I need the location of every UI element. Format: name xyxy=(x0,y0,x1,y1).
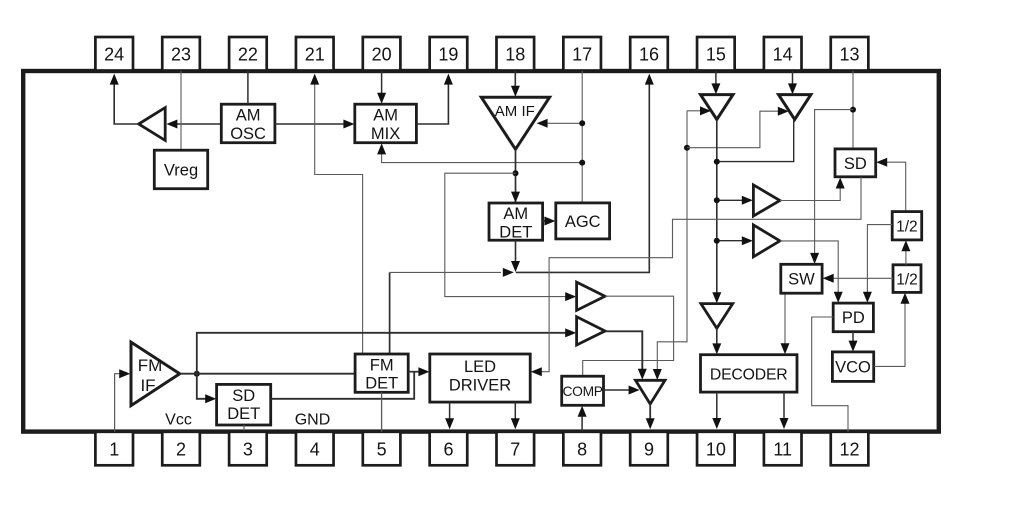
svg-text:7: 7 xyxy=(510,439,520,459)
svg-text:GND: GND xyxy=(295,411,331,428)
node SD mute bus branch junction xyxy=(684,145,690,151)
svg-text:16: 16 xyxy=(639,45,659,65)
wire amp A output to COMP top xyxy=(583,296,674,376)
svg-text:1/2: 1/2 xyxy=(896,219,918,236)
svg-text:14: 14 xyxy=(773,45,793,65)
pin 4 (bottom) xyxy=(296,432,334,466)
wire FM DET output horizontal into pin 16 node xyxy=(390,268,514,277)
pin 15 (top) xyxy=(697,37,735,71)
DECODER block xyxy=(701,355,798,392)
node AM IF output junction xyxy=(513,170,519,176)
wire SD DET to pin 3 xyxy=(243,425,245,431)
svg-text:21: 21 xyxy=(305,45,325,65)
svg-text:FM: FM xyxy=(138,356,163,375)
svg-text:AM: AM xyxy=(236,107,261,125)
wire pin 18 to AM IF top xyxy=(511,71,520,97)
svg-text:AM: AM xyxy=(503,205,528,223)
svg-text:22: 22 xyxy=(238,45,258,65)
wire AGC net to AM IF right input xyxy=(537,119,583,128)
wire SD mute bus to meter amp 15 input xyxy=(687,106,711,115)
wire pin 13 down to SD top xyxy=(852,71,854,149)
wire AM DET output down to pin 16 node xyxy=(511,240,520,272)
pin 16 (top) xyxy=(630,37,668,71)
wire FM DET output up to pin 16 node xyxy=(389,272,391,353)
pin 5 (bottom) xyxy=(363,432,401,466)
GND label (pin 4) xyxy=(295,411,331,428)
node AGC net / AM IF feed junction xyxy=(579,120,585,126)
svg-text:20: 20 xyxy=(372,45,392,65)
svg-text:19: 19 xyxy=(438,45,458,65)
pin 22 (top) xyxy=(229,37,267,71)
wire divider 1/2b output to SW right input xyxy=(823,274,893,283)
wire LED DRIVER output to pin 6 xyxy=(445,402,454,429)
SD DET block xyxy=(217,384,271,425)
IC body outline xyxy=(23,71,939,432)
pin 8 (bottom) xyxy=(563,432,601,466)
FM DET block xyxy=(355,354,408,393)
pin 1 (bottom) xyxy=(95,432,133,466)
svg-text:12: 12 xyxy=(840,439,860,459)
svg-text:SD: SD xyxy=(232,387,255,405)
pin 21 (top) xyxy=(296,37,334,71)
wire SD mute bus (vertical) with branches xyxy=(653,111,687,380)
wire DECODER output to pin 11 xyxy=(780,392,789,429)
pin 2 (bottom) xyxy=(162,432,200,466)
svg-text:13: 13 xyxy=(840,45,860,65)
svg-text:LED: LED xyxy=(464,358,496,376)
svg-text:4: 4 xyxy=(310,439,320,459)
pin 18 (top) xyxy=(497,37,535,71)
node meter bus junction xyxy=(714,159,720,165)
svg-text:MIX: MIX xyxy=(371,125,400,143)
node AGC net / AM MIX feed junction xyxy=(579,160,585,166)
pin 20 (top) xyxy=(363,37,401,71)
svg-text:6: 6 xyxy=(443,439,453,459)
svg-text:8: 8 xyxy=(577,439,587,459)
wire divider 1/2b up to divider 1/2a xyxy=(901,240,910,264)
wire divider 1/2a left to PD top xyxy=(863,225,892,303)
svg-text:5: 5 xyxy=(377,439,387,459)
wire pin 8 to COMP bottom xyxy=(578,406,587,432)
svg-text:11: 11 xyxy=(773,439,792,459)
pin 17 (top) xyxy=(563,37,601,71)
buffer amp (AM OSC output buffer) xyxy=(139,108,166,141)
wire AM OSC to buffer input xyxy=(166,120,221,129)
wire PD output to VCO xyxy=(849,332,858,352)
wire meter amp 14 output joining meter bus xyxy=(717,120,794,162)
pin 13 (top) xyxy=(831,37,869,71)
svg-text:PD: PD xyxy=(842,309,865,327)
wire DECODER output to pin 10 xyxy=(712,392,721,429)
wire buffer output to pin 24 xyxy=(110,74,139,124)
window comparator triangle (to pin 9) xyxy=(636,380,666,404)
svg-text:DET: DET xyxy=(499,224,532,242)
svg-text:3: 3 xyxy=(243,439,253,459)
LED DRIVER block xyxy=(430,354,530,402)
svg-text:FM: FM xyxy=(370,356,394,374)
AM IF amp triangle xyxy=(481,97,549,149)
svg-text:9: 9 xyxy=(644,439,654,459)
svg-text:VCO: VCO xyxy=(835,359,871,377)
wire pin 20 to AM MIX top xyxy=(377,71,386,104)
svg-text:AGC: AGC xyxy=(565,213,601,231)
meter amp triangle at pin 15 xyxy=(701,95,734,120)
stop detector triangle (decoder input) xyxy=(701,304,733,329)
svg-text:DET: DET xyxy=(227,405,260,423)
wire SW output to DECODER top xyxy=(781,293,790,354)
wire SD output down to mute bus xyxy=(531,177,861,376)
FM IF amp triangle xyxy=(131,342,180,406)
pin 10 (bottom) xyxy=(697,432,735,466)
pin 23 (top) xyxy=(162,37,200,71)
wire AM OSC output to AM MIX input xyxy=(275,120,355,129)
pin 11 (bottom) xyxy=(764,432,802,466)
divider 1/2 block a xyxy=(892,212,922,240)
wire buffer amp C output to SD bottom xyxy=(780,178,845,201)
svg-text:AM: AM xyxy=(373,107,398,125)
wire SD DET output to LED DRIVER input xyxy=(271,372,415,399)
wire pin 16 node to pin 16 xyxy=(516,74,654,273)
svg-text:24: 24 xyxy=(104,45,124,65)
wire meter bus to buffer amp C input xyxy=(717,196,753,205)
wire pin 1 to FM IF input xyxy=(115,369,131,432)
svg-text:10: 10 xyxy=(706,439,726,459)
wire pin 14 to meter amp top xyxy=(788,71,797,95)
pin 12 (bottom) xyxy=(831,432,869,466)
pin 3 (bottom) xyxy=(229,432,267,466)
svg-text:DECODER: DECODER xyxy=(710,367,788,384)
wire SD mute bus to meter amp 14 input xyxy=(687,107,789,148)
svg-text:17: 17 xyxy=(572,45,592,65)
svg-text:18: 18 xyxy=(505,45,525,65)
wire pin 12 to PD left input xyxy=(812,317,848,432)
Vcc label (pin 2) xyxy=(165,411,192,428)
SW block xyxy=(781,264,822,293)
buffer amp D triangle xyxy=(753,225,780,257)
wire pin 13 net to SW top xyxy=(810,110,853,264)
wire pin 15 to meter amp top xyxy=(711,71,720,95)
wire FM DET output to LED DRIVER input xyxy=(408,367,429,376)
Vreg block xyxy=(154,150,207,189)
wire pin 17 to AGC top (AGC net) xyxy=(581,71,583,203)
SD block xyxy=(835,149,876,177)
wire AM MIX AGC feedback from AGC net xyxy=(377,143,582,162)
svg-text:SD: SD xyxy=(844,155,867,173)
wire AM MIX output to pin 19 xyxy=(416,74,453,124)
svg-text:IF: IF xyxy=(140,376,155,395)
svg-text:COMP: COMP xyxy=(562,384,602,399)
PD block xyxy=(833,303,873,332)
wire buffer amp D output to PD top xyxy=(780,241,843,303)
COMP block xyxy=(562,376,604,405)
svg-text:SW: SW xyxy=(788,271,815,289)
wire FM DET to pin 5 xyxy=(381,392,383,432)
svg-text:1: 1 xyxy=(109,439,119,459)
svg-text:23: 23 xyxy=(171,45,191,65)
svg-text:DET: DET xyxy=(365,375,398,393)
wire amp B output to window comparator left input xyxy=(605,331,647,380)
wire LED DRIVER output to pin 7 xyxy=(511,402,520,429)
wire meter bus to buffer amp D input xyxy=(717,236,753,245)
wire VCO output to divider 1/2b xyxy=(874,293,910,367)
svg-text:15: 15 xyxy=(706,45,726,65)
wire meter amp 15 output down to decoder chain xyxy=(712,120,721,304)
wire FM IF output to FM DET xyxy=(180,373,355,375)
wire divider 1/2a to SD right input xyxy=(876,158,906,212)
wire pin 23 to Vreg xyxy=(180,71,182,150)
wire window comparator output to pin 9 xyxy=(646,404,655,429)
pin 9 (bottom) xyxy=(630,432,668,466)
level amp B triangle xyxy=(577,317,605,345)
wire stop detector output to DECODER top xyxy=(712,328,721,354)
buffer amp C triangle xyxy=(753,185,780,216)
AM DET block xyxy=(489,203,543,242)
wire pin 22 to AM OSC top xyxy=(247,71,249,104)
node FM IF output junction xyxy=(194,371,200,377)
svg-text:OSC: OSC xyxy=(230,125,266,143)
meter amp triangle at pin 14 xyxy=(779,95,811,120)
svg-text:AM IF: AM IF xyxy=(495,103,535,120)
svg-text:Vreg: Vreg xyxy=(164,162,198,180)
AM OSC U-osc block xyxy=(221,104,275,143)
wire FM IF output up-branch to quad amp B input xyxy=(197,328,576,373)
svg-text:Vcc: Vcc xyxy=(165,411,192,428)
wire AM IF output down to AM DET xyxy=(511,149,520,202)
node pin 13 net junction xyxy=(850,107,856,113)
wire COMP output to window comparator xyxy=(604,386,640,395)
node buffer amp D feed junction xyxy=(714,238,720,244)
wire FM IF output down-branch to SD DET input xyxy=(197,374,216,404)
pin 7 (bottom) xyxy=(497,432,535,466)
divider 1/2 block b xyxy=(893,265,921,293)
wire AM DET output to AGC xyxy=(543,217,556,226)
wire pin 21 down to FM DET top xyxy=(310,74,362,354)
node buffer amp C feed junction xyxy=(714,197,720,203)
level amp A triangle xyxy=(577,282,605,310)
pin 24 (top) xyxy=(95,37,133,71)
svg-text:1/2: 1/2 xyxy=(896,271,918,288)
wire AM IF output branch to level amp A xyxy=(445,173,576,301)
pin 14 (top) xyxy=(764,37,802,71)
VCO block xyxy=(832,352,873,382)
pin 6 (bottom) xyxy=(430,432,468,466)
svg-text:2: 2 xyxy=(176,439,186,459)
svg-text:DRIVER: DRIVER xyxy=(449,377,511,395)
AM MIX block xyxy=(355,104,417,143)
AGC block xyxy=(556,203,610,239)
pin 19 (top) xyxy=(430,37,468,71)
